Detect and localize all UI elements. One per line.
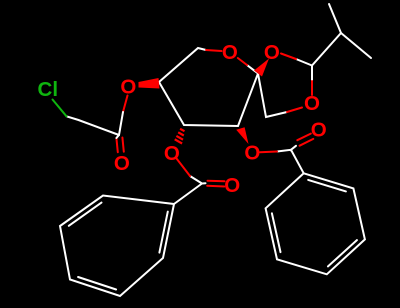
svg-text:O: O — [114, 152, 130, 175]
svg-text:O: O — [224, 174, 240, 197]
svg-text:O: O — [222, 41, 238, 64]
svg-text:O: O — [311, 119, 327, 142]
svg-text:O: O — [304, 92, 320, 115]
svg-text:O: O — [164, 142, 180, 165]
svg-text:O: O — [244, 141, 260, 164]
svg-text:O: O — [264, 41, 280, 64]
svg-text:O: O — [120, 75, 136, 98]
svg-text:Cl: Cl — [38, 78, 59, 101]
